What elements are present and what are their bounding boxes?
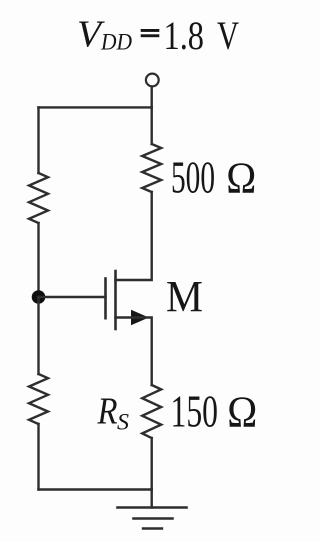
wire: bottom rail horizontal — [39, 488, 152, 490]
wire: gate lead — [39, 296, 106, 298]
wire: top rail horizontal — [39, 106, 152, 108]
wire: R2 to bottom rail — [37, 424, 39, 490]
wire: top rail to RD — [150, 107, 152, 144]
source arrow — [131, 310, 149, 325]
wire: R1 to gate node — [37, 223, 39, 297]
resistor R1 (left upper) — [29, 173, 48, 223]
transistor M — [106, 271, 149, 329]
wire: gate node down — [37, 297, 39, 374]
resistor R2 (left lower) — [29, 374, 48, 424]
resistor RS 150 ohm — [142, 385, 161, 438]
svg-text:1.8: 1.8 — [164, 13, 205, 58]
svg-text:DD: DD — [100, 29, 132, 54]
svg-text:500: 500 — [171, 153, 215, 203]
supply terminal VDD — [146, 74, 159, 87]
wire: RD to drain — [116, 192, 152, 280]
wire: source lead — [116, 318, 152, 386]
svg-text:R: R — [97, 391, 118, 433]
ground bar 3 — [143, 527, 162, 529]
label VDD = 1.8 V — [77, 13, 239, 58]
ground stem — [150, 490, 152, 508]
wire: terminal to top rail — [150, 88, 152, 108]
ground — [118, 490, 187, 529]
value label 150 ohm — [171, 387, 258, 437]
node A (gate junction) — [32, 290, 46, 304]
svg-text:V: V — [217, 13, 239, 58]
svg-text:Ω: Ω — [227, 388, 257, 437]
value label 500 ohm — [171, 153, 256, 203]
svg-text:M: M — [166, 271, 203, 321]
ground bar 1 — [118, 506, 187, 509]
ground bar 2 — [134, 517, 173, 520]
resistor RD 500 ohm — [142, 144, 161, 192]
svg-text:Ω: Ω — [226, 154, 256, 203]
svg-text:150: 150 — [171, 387, 219, 437]
value label RS — [97, 391, 130, 435]
channel bar — [114, 271, 117, 329]
svg-text:S: S — [117, 410, 130, 435]
wire: RS to bottom rail — [150, 438, 152, 490]
gate bar — [104, 279, 107, 319]
wire: left branch upper — [37, 107, 39, 173]
